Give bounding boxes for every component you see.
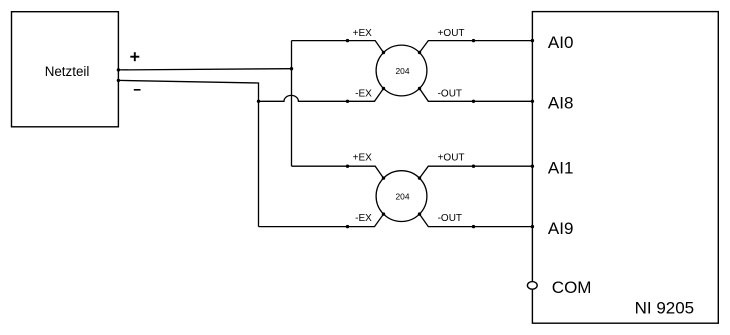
svg-text:204: 204: [396, 66, 410, 76]
svg-text:AI1: AI1: [548, 159, 574, 178]
svg-text:+OUT: +OUT: [438, 28, 465, 39]
svg-text:+EX: +EX: [353, 28, 373, 39]
svg-text:NI 9205: NI 9205: [635, 299, 695, 318]
svg-text:-OUT: -OUT: [438, 88, 462, 99]
svg-text:-OUT: -OUT: [438, 213, 462, 224]
svg-text:AI0: AI0: [548, 33, 574, 52]
svg-text:-EX: -EX: [355, 88, 372, 99]
svg-text:+OUT: +OUT: [438, 153, 465, 164]
svg-text:COM: COM: [552, 278, 592, 297]
svg-text:Netzteil: Netzteil: [45, 64, 90, 79]
svg-text:AI9: AI9: [548, 219, 574, 238]
svg-text:204: 204: [396, 192, 410, 202]
svg-text:AI8: AI8: [548, 94, 574, 113]
svg-text:+EX: +EX: [353, 153, 373, 164]
svg-text:-EX: -EX: [355, 213, 372, 224]
